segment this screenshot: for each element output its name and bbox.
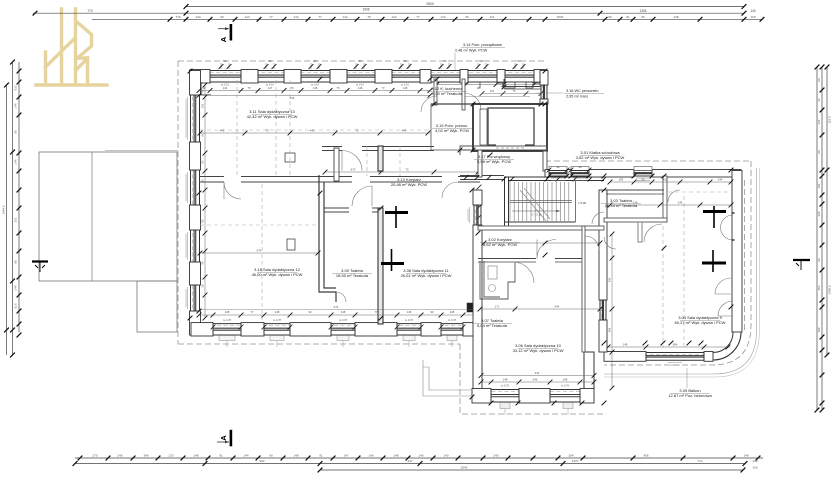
svg-text:247: 247	[407, 459, 412, 463]
svg-text:tu 1/78: tu 1/78	[273, 318, 281, 322]
right wing top wall	[545, 171, 741, 177]
svg-text:148: 148	[743, 453, 748, 457]
svg-text:148: 148	[341, 310, 346, 314]
corridor dim line	[325, 171, 478, 173]
svg-text:770: 770	[87, 9, 93, 13]
svg-text:346: 346	[143, 453, 148, 457]
svg-text:144: 144	[678, 201, 683, 205]
corridor 3.17 south wall	[460, 146, 547, 150]
svg-text:140: 140	[750, 9, 756, 13]
svg-text:90: 90	[403, 59, 407, 63]
svg-text:246: 246	[117, 453, 122, 457]
svg-text:12,87 m² Poz. betonowa: 12,87 m² Poz. betonowa	[668, 393, 712, 398]
svg-text:144: 144	[14, 285, 18, 290]
survey cross 4 (right wing)	[702, 262, 726, 265]
svg-text:144: 144	[243, 453, 248, 457]
wall from main block to stairs	[459, 150, 461, 155]
svg-text:tu 1/78: tu 1/78	[339, 318, 347, 322]
svg-text:3.16 WC personelu: 3.16 WC personelu	[566, 89, 599, 93]
svg-text:144: 144	[14, 159, 18, 164]
door arcs middle wing	[513, 212, 604, 283]
room label korytarz 3.02	[480, 237, 520, 247]
svg-text:104: 104	[817, 183, 821, 188]
svg-text:90: 90	[430, 310, 434, 314]
survey cross 2 (wall x381 mid)	[381, 262, 404, 265]
svg-text:60: 60	[465, 15, 469, 19]
east wall lower chunk	[584, 352, 594, 402]
svg-text:456: 456	[643, 453, 648, 457]
stairs steps	[510, 182, 569, 221]
svg-text:90: 90	[608, 15, 612, 19]
svg-text:147: 147	[268, 86, 273, 90]
wing partition toaleta east wall	[663, 176, 667, 222]
svg-text:3,52 m² Wyk. dywan i PCW: 3,52 m² Wyk. dywan i PCW	[576, 155, 625, 160]
room label sala dydaktyczna 9	[675, 315, 726, 325]
svg-text:441: 441	[489, 15, 494, 19]
svg-text:148: 148	[193, 453, 198, 457]
svg-text:46: 46	[817, 98, 821, 102]
svg-text:144: 144	[718, 178, 723, 182]
svg-text:448: 448	[673, 15, 678, 19]
svg-text:443: 443	[220, 129, 225, 133]
svg-text:75: 75	[367, 15, 371, 19]
svg-text:A: A	[219, 435, 228, 441]
svg-text:8,62 m² Wyk. PCW: 8,62 m² Wyk. PCW	[483, 242, 517, 247]
outer wall right upper (x=541)	[541, 71, 547, 105]
svg-text:3,98 m² Wyk. PCW: 3,98 m² Wyk. PCW	[477, 159, 511, 164]
svg-text:144: 144	[293, 15, 298, 19]
door arc toaleta 3.03	[644, 224, 662, 242]
svg-text:x 5,06: x 5,06	[578, 201, 587, 205]
svg-text:17 x 0,18: 17 x 0,18	[531, 213, 542, 217]
corridor 3.13 north wall	[322, 147, 434, 151]
partition x=582 corridor east	[582, 226, 585, 352]
svg-text:76: 76	[290, 86, 294, 90]
svg-text:2940: 2940	[461, 466, 468, 470]
svg-text:90: 90	[641, 15, 645, 19]
wall stub x=478	[478, 150, 482, 177]
door arcs right wing	[604, 190, 731, 294]
toaleta 3.09 north wall	[324, 208, 378, 212]
svg-text:148: 148	[563, 378, 568, 382]
svg-text:90: 90	[220, 15, 224, 19]
svg-text:90: 90	[517, 59, 521, 63]
column/duct box	[287, 239, 295, 250]
svg-text:18,50 m² Terakota: 18,50 m² Terakota	[336, 273, 369, 278]
svg-text:4,02 m² Wyk. PCW: 4,02 m² Wyk. PCW	[435, 128, 469, 133]
wall connector kitchen block to wing	[543, 151, 547, 171]
svg-text:75: 75	[405, 168, 409, 172]
middle wing west wall	[474, 190, 481, 402]
door arc toaleta 3.09	[352, 186, 372, 206]
svg-text:90: 90	[269, 453, 273, 457]
svg-text:90: 90	[556, 165, 560, 169]
room label korytarz 3.13	[389, 177, 429, 187]
svg-text:130: 130	[200, 103, 204, 108]
room label sala dydaktyczna 11	[401, 268, 452, 278]
dim col inside wing x=612	[611, 234, 613, 388]
svg-text:1949.5: 1949.5	[2, 205, 6, 215]
room label balkon	[668, 388, 712, 398]
logo architectural firm (tan)	[36, 9, 107, 85]
dashed roof overhang outline right wing / balcony	[460, 161, 751, 414]
svg-text:75: 75	[336, 86, 340, 90]
door arcs main block	[336, 93, 481, 302]
svg-text:90: 90	[480, 59, 484, 63]
svg-text:90: 90	[641, 178, 645, 182]
svg-text:469: 469	[608, 327, 612, 332]
partition x=437-473 room 3.15	[431, 104, 473, 150]
svg-text:284: 284	[568, 453, 573, 457]
adjacent existing building (west)	[39, 152, 177, 281]
dim row WC zone	[482, 93, 541, 95]
svg-text:100: 100	[752, 466, 757, 470]
svg-text:144: 144	[342, 15, 347, 19]
svg-text:5,04 m² Terakota: 5,04 m² Terakota	[477, 323, 508, 328]
toilet 3.07 walls	[480, 261, 515, 299]
svg-text:60,27 m² Wyk. dywan i PCW: 60,27 m² Wyk. dywan i PCW	[675, 320, 726, 325]
dashed roof overhang outline main block	[178, 61, 545, 344]
svg-text:90: 90	[308, 310, 312, 314]
interior dims above bottom wall	[199, 314, 474, 316]
svg-text:144: 144	[223, 86, 228, 90]
svg-text:674: 674	[334, 305, 339, 309]
survey cross 3 (right wing)	[703, 210, 726, 213]
svg-text:146: 146	[418, 453, 423, 457]
svg-text:2503: 2503	[557, 15, 564, 19]
toaleta 3.03 south wall	[604, 218, 667, 222]
svg-text:844: 844	[290, 96, 295, 100]
svg-text:77: 77	[416, 15, 420, 19]
sill marks below wing bottom window	[668, 363, 682, 366]
dashed beam lines	[200, 80, 430, 320]
svg-text:270: 270	[92, 453, 97, 457]
benchmark marker left	[32, 260, 48, 262]
room label kuchnia	[427, 86, 467, 96]
middle wing corridor south wall	[478, 258, 536, 260]
svg-text:443: 443	[310, 129, 315, 133]
notched inner face top wall (WC zone)	[477, 82, 541, 88]
svg-text:516: 516	[14, 303, 18, 308]
svg-text:148: 148	[225, 310, 230, 314]
dim line above wing bottom wall	[608, 346, 730, 348]
corridor 3.17 south wall	[460, 175, 504, 177]
svg-text:147: 147	[343, 453, 348, 457]
dimension chain bottom	[75, 457, 763, 459]
dense tick row along stair north wall	[464, 175, 607, 181]
svg-text:670: 670	[351, 168, 356, 172]
rounded SE corner wall	[713, 332, 741, 360]
svg-text:3.14 Pom. porządkowe: 3.14 Pom. porządkowe	[463, 43, 502, 47]
svg-text:144: 144	[244, 15, 249, 19]
right wing bottom wall	[604, 353, 713, 361]
svg-text:90: 90	[14, 130, 18, 134]
svg-text:148: 148	[393, 453, 398, 457]
second dim line under top wall	[199, 94, 430, 96]
svg-text:A: A	[219, 36, 228, 42]
svg-text:146: 146	[368, 453, 373, 457]
dimension row under top wall right part	[437, 84, 545, 86]
svg-text:144: 144	[14, 103, 18, 108]
room label sala dydaktyczna 10	[513, 343, 564, 353]
thin solid offset line right wing	[604, 168, 757, 374]
svg-text:77: 77	[250, 310, 254, 314]
corner step detail top-left	[201, 82, 211, 95]
svg-text:77: 77	[381, 86, 385, 90]
label WC personelu with leader	[564, 89, 604, 99]
svg-text:344: 344	[555, 305, 560, 309]
svg-text:75: 75	[265, 129, 269, 133]
svg-text:770: 770	[175, 15, 180, 19]
divider wall sala13/sala12	[199, 177, 331, 183]
svg-text:77: 77	[318, 15, 322, 19]
svg-text:245: 245	[817, 119, 821, 124]
svg-text:453: 453	[663, 178, 668, 182]
svg-text:1088.5: 1088.5	[828, 285, 832, 295]
room label pom pomoc	[432, 123, 472, 133]
svg-text:77: 77	[269, 15, 273, 19]
svg-text:140: 140	[443, 453, 448, 457]
room label sala dydaktyczna 12	[252, 267, 303, 277]
svg-text:90: 90	[268, 59, 272, 63]
dimension chain left	[6, 85, 8, 355]
interior dims right wing	[610, 204, 731, 206]
svg-text:90: 90	[817, 258, 821, 262]
corridor 3.13 south wall	[331, 177, 480, 183]
window dimension tags above top wall	[221, 63, 229, 69]
extra door arc east wall	[718, 301, 733, 316]
column box on dashed line	[285, 153, 295, 162]
svg-text:356: 356	[817, 285, 821, 290]
svg-text:33,12 m² Wyk. dywan i PCW: 33,12 m² Wyk. dywan i PCW	[513, 348, 564, 353]
interior dimension line sala 13	[200, 132, 430, 134]
svg-text:26,44 m² Terakota: 26,44 m² Terakota	[605, 203, 638, 208]
interior dims middle wing	[481, 375, 594, 377]
interior dimension line sala 12	[200, 252, 318, 254]
terrace steps outline	[423, 360, 472, 396]
partition kitchen west x=435	[434, 79, 437, 105]
door arc sala 11	[442, 182, 458, 198]
dim line below toilet	[480, 308, 600, 310]
svg-text:171: 171	[495, 305, 500, 309]
benchmark marker right	[793, 259, 810, 261]
kitchen / lift room thick walls	[473, 104, 547, 151]
svg-text:91: 91	[319, 453, 323, 457]
survey cross 1 (wall x381 top)	[385, 211, 408, 214]
svg-text:tu 1/78: tu 1/78	[405, 318, 413, 322]
dimension row under top wall	[199, 90, 430, 92]
svg-text:546: 546	[533, 378, 538, 382]
stair direction arrow	[512, 210, 560, 212]
svg-text:90: 90	[313, 59, 317, 63]
svg-text:340: 340	[608, 277, 612, 282]
room label toaleta wing	[601, 198, 641, 208]
label pom. porzadkowe with leader	[455, 43, 505, 53]
WC partition	[503, 79, 505, 87]
svg-text:144: 144	[195, 15, 200, 19]
wall stub below toaleta	[638, 222, 642, 242]
svg-text:100: 100	[750, 15, 755, 19]
door arc divider	[224, 182, 241, 199]
middle wing bottom wall	[472, 390, 594, 403]
svg-text:2,95 m² Gres: 2,95 m² Gres	[566, 95, 588, 99]
svg-text:714: 714	[697, 459, 702, 463]
dimension column inside left wall	[204, 85, 206, 318]
window sills below wing top wall	[551, 178, 650, 181]
right wing west wall / middle wing east wall	[600, 190, 606, 352]
svg-text:90: 90	[817, 78, 821, 82]
svg-text:148: 148	[358, 86, 363, 90]
svg-text:tu 1/78: tu 1/78	[561, 384, 569, 388]
svg-text:tu 1/78: tu 1/78	[448, 318, 456, 322]
section marker A (bottom)	[230, 430, 233, 447]
svg-text:148: 148	[623, 343, 628, 347]
svg-text:119.5: 119.5	[828, 116, 832, 124]
svg-text:148: 148	[313, 86, 318, 90]
svg-text:148: 148	[403, 86, 408, 90]
svg-text:133: 133	[168, 453, 173, 457]
door arc corridor north	[342, 151, 362, 171]
svg-text:584: 584	[673, 343, 678, 347]
svg-text:90: 90	[358, 59, 362, 63]
svg-text:351: 351	[14, 217, 18, 222]
stairwell top window sills (above wall)	[549, 167, 567, 171]
svg-text:tu 1/78: tu 1/78	[223, 318, 231, 322]
svg-text:1906: 1906	[362, 8, 369, 12]
svg-text:90: 90	[223, 59, 227, 63]
svg-text:148: 148	[293, 453, 298, 457]
svg-text:1306: 1306	[639, 9, 646, 13]
svg-text:443: 443	[402, 129, 407, 133]
svg-text:151: 151	[490, 89, 495, 93]
room label pol wnekowy	[474, 154, 514, 164]
svg-text:77: 77	[374, 310, 378, 314]
svg-text:144: 144	[440, 15, 445, 19]
svg-text:90: 90	[14, 260, 18, 264]
svg-text:368: 368	[817, 211, 821, 216]
chimney duct (filled)	[467, 303, 477, 312]
partition x=320 (toaleta west J-wall)	[319, 175, 336, 302]
casement window arcs east wall	[721, 215, 734, 240]
stairwell enclosure	[505, 177, 605, 181]
svg-text:140: 140	[752, 459, 757, 463]
svg-text:148: 148	[503, 378, 508, 382]
corridor west end wall	[334, 148, 339, 181]
svg-text:148: 148	[275, 310, 280, 314]
svg-text:148: 148	[407, 310, 412, 314]
wing corridor partition	[606, 189, 664, 191]
room label toaleta 3.09	[332, 268, 372, 278]
dimension row under wing top wall	[610, 181, 731, 183]
svg-text:532: 532	[14, 85, 18, 90]
svg-text:674: 674	[257, 249, 262, 253]
dimension chain right	[816, 67, 818, 410]
room label toaleta 3.07	[472, 318, 512, 328]
svg-text:4470: 4470	[572, 459, 579, 463]
svg-text:902: 902	[259, 459, 264, 463]
svg-text:25,01 m² Wyk. dywan i PCW: 25,01 m² Wyk. dywan i PCW	[401, 273, 452, 278]
middle wing corridor north wall	[478, 226, 604, 230]
partition kitchen east x=462	[462, 79, 465, 110]
outer wall top (main block)	[190, 71, 545, 83]
section marker A (top)	[230, 24, 233, 41]
svg-text:75: 75	[247, 86, 251, 90]
svg-text:148: 148	[450, 310, 455, 314]
dimension chain top	[186, 6, 744, 8]
worktop line kitchen	[464, 96, 530, 98]
svg-text:90: 90	[817, 150, 821, 154]
right wing east wall	[733, 171, 741, 333]
partition x=381 thick	[378, 208, 383, 324]
svg-text:100: 100	[817, 327, 821, 332]
svg-text:9,50 m² Terakota: 9,50 m² Terakota	[432, 91, 463, 96]
svg-text:tu 1/78: tu 1/78	[501, 384, 509, 388]
partition x=381 thick upper	[378, 146, 383, 171]
room label sala dydaktyczna 13	[247, 109, 298, 119]
outer wall left (main block)	[191, 71, 200, 336]
svg-text:245: 245	[493, 453, 498, 457]
wall junction ticks	[188, 69, 734, 406]
outer wall bottom (main block)	[191, 324, 474, 335]
svg-text:20,48 m² Wyk. PCW: 20,48 m² Wyk. PCW	[391, 182, 427, 187]
svg-text:61: 61	[626, 15, 630, 19]
svg-text:2600: 2600	[426, 2, 434, 6]
svg-text:344: 344	[535, 371, 540, 375]
svg-text:46,00 m² Wyk. dywan i PCW: 46,00 m² Wyk. dywan i PCW	[252, 272, 303, 277]
svg-text:90: 90	[443, 59, 447, 63]
balcony leader line	[686, 368, 688, 388]
svg-text:42,42 m² Wyk. dywan i PCW: 42,42 m² Wyk. dywan i PCW	[247, 114, 298, 119]
svg-text:90: 90	[578, 165, 582, 169]
svg-text:2,48 m² Wyk. PCW: 2,48 m² Wyk. PCW	[455, 49, 488, 53]
room label klatka schodowa	[576, 150, 625, 160]
svg-text:91: 91	[219, 453, 223, 457]
svg-text:75: 75	[355, 129, 359, 133]
stair break line	[520, 188, 550, 221]
svg-text:144: 144	[391, 15, 396, 19]
svg-text:183: 183	[619, 178, 624, 182]
